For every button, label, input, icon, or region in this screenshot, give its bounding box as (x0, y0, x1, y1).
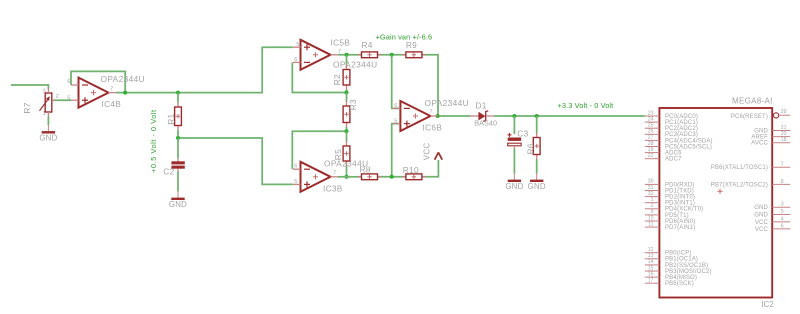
node: IC5B out junction (345, 53, 349, 57)
ground (505, 174, 523, 192)
svg-text:5: 5 (394, 118, 397, 124)
pin 11 PD7(AIN1) (645, 221, 696, 231)
node: R2/R3 junction (345, 91, 349, 95)
svg-text:PC4(ADC4/SDA): PC4(ADC4/SDA) (665, 138, 713, 144)
op-amp IC4B (71, 78, 116, 108)
svg-text:OPA2344U: OPA2344U (333, 59, 378, 69)
ground (528, 174, 546, 192)
svg-text:27: 27 (648, 135, 654, 141)
svg-text:IC3B: IC3B (323, 184, 343, 194)
svg-text:GND: GND (169, 200, 187, 209)
svg-text:+3.3 Volt - 0 Volt: +3.3 Volt - 0 Volt (558, 101, 614, 110)
svg-text:6: 6 (781, 223, 784, 229)
pin 6 VCC (755, 223, 790, 233)
potentiometer R7 (22, 89, 55, 117)
svg-text:31: 31 (648, 185, 654, 191)
svg-text:BAS40: BAS40 (474, 118, 497, 127)
pin 15 PB3(MOSI/OC2) (645, 265, 712, 275)
svg-text:C2: C2 (163, 166, 174, 176)
resistor R5 (333, 142, 350, 166)
wire: IC5B fb: pin6 left, down, to R2 bottom junction (292, 62, 346, 92)
svg-text:PD5(T1): PD5(T1) (665, 213, 689, 219)
resistor R2 (332, 65, 350, 90)
resistor R8 (358, 165, 382, 180)
svg-text:3: 3 (781, 202, 784, 208)
svg-text:7: 7 (333, 170, 336, 176)
capacitor C2 (163, 158, 184, 176)
svg-text:9: 9 (651, 209, 654, 215)
svg-text:7: 7 (338, 49, 341, 55)
resistor R3 (343, 99, 358, 127)
pin 14 PB2(SS/OC1B) (645, 259, 708, 269)
pin 1 PD3(INT1) (645, 197, 695, 207)
svg-text:15: 15 (648, 265, 654, 271)
svg-text:7: 7 (430, 109, 433, 115)
svg-text:+Gain van +/-6.6: +Gain van +/-6.6 (376, 33, 433, 42)
pin 3 GND (754, 202, 790, 212)
wire: bottom row R8/R10 (347, 176, 362, 178)
wire: R1 leads (177, 93, 179, 103)
svg-text:R8: R8 (360, 165, 371, 175)
pin 30 PD0(RXD) (645, 179, 695, 189)
wire: down to C2 (177, 138, 179, 158)
wire: IC3B fb: pin6 left, up, to R3 bottom junction (292, 131, 346, 169)
pin 2 PD4(XCK/T0) (645, 203, 704, 213)
svg-text:AVCC: AVCC (751, 141, 768, 147)
resistor R10 (402, 165, 426, 180)
pin 18 AVCC (751, 137, 790, 147)
svg-text:PD6(AIN0): PD6(AIN0) (665, 219, 695, 225)
svg-text:28: 28 (648, 141, 654, 147)
ground (39, 125, 57, 143)
svg-text:3: 3 (43, 88, 46, 94)
node: R1 bottom junction (176, 136, 180, 140)
svg-text:+0.5 Volt - 0 Volt: +0.5 Volt - 0 Volt (149, 109, 158, 173)
svg-text:OPA2344U: OPA2344U (101, 74, 146, 84)
svg-text:4: 4 (781, 216, 784, 222)
svg-text:PC1(ADC1): PC1(ADC1) (665, 120, 698, 126)
pin 10 PD6(AIN0) (645, 215, 696, 225)
svg-text:R1: R1 (166, 114, 176, 125)
node: R8/R10 junction (390, 175, 394, 179)
svg-text:5: 5 (296, 42, 299, 48)
svg-text:24: 24 (648, 116, 654, 122)
pin 5 GND (754, 209, 790, 219)
wire: R9 right, down to output row (422, 55, 438, 116)
svg-text:16: 16 (648, 271, 654, 277)
svg-text:R3: R3 (348, 99, 358, 110)
svg-text:1: 1 (43, 111, 46, 117)
svg-text:11: 11 (648, 221, 653, 227)
svg-text:19: 19 (648, 147, 654, 153)
svg-text:GND: GND (528, 182, 546, 191)
wire: IC6B pin5 down to R8/R10 junction (392, 124, 400, 177)
svg-text:20: 20 (781, 131, 787, 137)
wire: R1 bottom row to IC3B pin5 riser (178, 138, 293, 184)
svg-text:PB0(ICP): PB0(ICP) (665, 251, 692, 257)
svg-text:PB2(SS/OC1B): PB2(SS/OC1B) (665, 263, 708, 269)
VCC supply symbol (423, 143, 443, 161)
pin 8 PB7(XTAL2/TOSC2) (711, 179, 790, 189)
svg-text:PD2(INT0): PD2(INT0) (665, 195, 695, 201)
svg-text:23: 23 (648, 110, 654, 116)
node: IC4B fb junction (123, 91, 127, 95)
svg-text:IC2: IC2 (761, 300, 774, 309)
svg-text:GND: GND (39, 134, 57, 143)
svg-text:OPA2344U: OPA2344U (425, 98, 470, 108)
svg-text:14: 14 (648, 259, 654, 265)
IC2 MEGA8-AI microcontroller (659, 97, 774, 309)
svg-text:C3: C3 (517, 129, 528, 139)
wire: R3 leads (outer) (346, 93, 348, 102)
svg-text:6: 6 (394, 103, 397, 109)
pin 19 ADC6 (645, 147, 682, 157)
svg-text:GND: GND (505, 182, 523, 191)
svg-text:PD4(XCK/T0): PD4(XCK/T0) (665, 207, 703, 213)
svg-text:D1: D1 (476, 101, 487, 111)
svg-text:18: 18 (781, 137, 787, 143)
svg-text:30: 30 (648, 179, 654, 185)
svg-text:5: 5 (294, 179, 297, 185)
svg-text:8: 8 (781, 179, 784, 185)
wire: R7 wiper to IC4B pin5 (54, 99, 72, 101)
node: R1 top junction (176, 91, 180, 95)
diode D1 BAS40 (470, 101, 497, 128)
svg-text:PD7(AIN1): PD7(AIN1) (665, 225, 695, 231)
svg-text:2: 2 (56, 94, 59, 100)
wire: R4 to R9 across centre junction (378, 54, 406, 56)
node: R4/R9 junction (390, 53, 394, 57)
wire: R7 pin1 down to ground (47, 117, 49, 126)
svg-text:13: 13 (648, 253, 654, 259)
capacitor C3 (polarized) (508, 129, 529, 149)
pin 26 PC3(ADC3) (645, 129, 698, 139)
pin 25 PC2(ADC2) (645, 123, 698, 133)
wire: IC4B feedback loop (71, 71, 125, 92)
svg-text:12: 12 (648, 247, 654, 253)
svg-text:PB5(SCK): PB5(SCK) (665, 281, 694, 287)
svg-text:GND: GND (754, 212, 768, 218)
pin 29 PC6(RESET) (731, 109, 790, 120)
svg-text:29: 29 (781, 109, 787, 115)
pin 12 PB0(ICP) (645, 247, 692, 257)
svg-text:10: 10 (648, 215, 654, 221)
svg-text:26: 26 (648, 129, 654, 135)
node: fb/out junction (436, 114, 440, 118)
svg-text:5: 5 (67, 96, 70, 102)
svg-text:PB6(XTAL1/TOSC1): PB6(XTAL1/TOSC1) (711, 165, 768, 171)
svg-text:6: 6 (67, 79, 70, 85)
pin 17 PB5(SCK) (645, 278, 694, 288)
svg-text:ADC6: ADC6 (665, 151, 682, 157)
svg-text:IC6B: IC6B (423, 122, 443, 132)
svg-text:R10: R10 (403, 165, 419, 175)
svg-text:AREF: AREF (751, 135, 768, 141)
op-amp IC6B (393, 101, 438, 131)
pin 9 PD5(T1) (645, 209, 689, 219)
wire: C3 leads (513, 116, 515, 134)
resistor R6 (526, 133, 541, 159)
op-amp IC3B (293, 162, 338, 192)
pin 27 PC4(ADC4/SDA) (645, 135, 713, 145)
pin 24 PC1(ADC1) (645, 116, 698, 126)
resistor R1 (166, 103, 181, 131)
svg-text:PB4(MISO): PB4(MISO) (665, 275, 697, 281)
pin 13 PB1(OC1A) (645, 253, 698, 263)
pin 16 PB4(MISO) (645, 271, 697, 281)
ground (169, 192, 187, 210)
svg-text:17: 17 (648, 278, 654, 284)
pin 20 AREF (751, 131, 790, 141)
pin 23 PC0(ADC0) (645, 110, 698, 120)
wire: IC6B output row to D1 (438, 115, 470, 117)
svg-text:PD1(TXD): PD1(TXD) (665, 188, 694, 194)
svg-text:25: 25 (648, 123, 654, 129)
svg-text:PC5(ADC5/SCL): PC5(ADC5/SCL) (665, 144, 712, 150)
svg-text:IC5B: IC5B (331, 37, 351, 47)
svg-text:MEGA8-AI: MEGA8-AI (732, 97, 773, 106)
svg-text:21: 21 (781, 125, 787, 131)
wire: junction down to IC6B pin6 (392, 55, 400, 109)
wire: C2 bottom to ground (177, 172, 179, 192)
pin 7 PB6(XTAL1/TOSC1) (711, 162, 790, 172)
svg-text:5: 5 (781, 209, 784, 215)
wire: IC3B output to junction (338, 176, 347, 178)
svg-text:GND: GND (754, 128, 768, 134)
svg-text:32: 32 (648, 191, 654, 197)
svg-text:PC0(ADC0): PC0(ADC0) (665, 114, 698, 120)
svg-text:R2: R2 (332, 74, 342, 85)
pin 31 PD1(TXD) (645, 185, 694, 195)
svg-text:GND: GND (754, 205, 768, 211)
pin 32 PD2(INT0) (645, 191, 695, 201)
svg-text:PC2(ADC2): PC2(ADC2) (665, 126, 698, 132)
node: C3 junction (512, 114, 516, 118)
svg-text:R5: R5 (333, 149, 343, 160)
wire: IC5B output to R4 (338, 54, 362, 56)
svg-text:VCC: VCC (423, 143, 432, 161)
svg-text:22: 22 (648, 153, 654, 159)
svg-text:PD0(RXD): PD0(RXD) (665, 182, 695, 188)
pin 22 ADC7 (645, 153, 682, 163)
svg-text:PC3(ADC3): PC3(ADC3) (665, 132, 698, 138)
svg-text:PB3(MOSI/OC2): PB3(MOSI/OC2) (665, 269, 712, 275)
node: IC3B out junction (345, 175, 349, 179)
svg-text:R4: R4 (362, 40, 373, 50)
svg-text:PD3(INT1): PD3(INT1) (665, 201, 695, 207)
wire: R2 leads (outer) (346, 55, 348, 65)
pin 4 VCC (755, 216, 790, 226)
svg-text:6: 6 (294, 57, 297, 63)
resistor R4 (358, 40, 382, 58)
svg-text:R7: R7 (22, 102, 32, 113)
pin 28 PC5(ADC5/SCL) (645, 141, 712, 151)
node: R6 junction (535, 114, 539, 118)
resistor R9 (402, 40, 426, 58)
wire: R5 leads (outer) (346, 131, 348, 141)
wire: input net into R7 top (11, 85, 49, 89)
svg-text:PB1(OC1A): PB1(OC1A) (665, 257, 698, 263)
op-amp IC5B (293, 40, 338, 70)
svg-text:2: 2 (651, 203, 654, 209)
svg-text:PB7(XTAL2/TOSC2): PB7(XTAL2/TOSC2) (711, 182, 768, 188)
svg-text:ADC7: ADC7 (665, 157, 682, 163)
wire: IC4B output row to R1 and IC5B pin5 riser (116, 47, 293, 92)
node: R3/R5 junction (345, 129, 349, 133)
svg-text:R6: R6 (526, 143, 536, 154)
wire: R6 leads (536, 116, 538, 133)
pin 21 GND (754, 125, 790, 135)
svg-text:PC6(RESET): PC6(RESET) (731, 114, 768, 120)
svg-text:IC4B: IC4B (102, 99, 122, 109)
svg-text:1: 1 (651, 197, 654, 203)
wire: D1 to C3/R6 junctions then MCU pin23 (494, 115, 645, 117)
svg-text:VCC: VCC (755, 220, 769, 226)
svg-text:7: 7 (781, 162, 784, 168)
svg-text:7: 7 (110, 87, 113, 93)
wire: R10 right to VCC riser (422, 160, 439, 177)
svg-text:VCC: VCC (755, 227, 769, 233)
svg-text:6: 6 (294, 164, 297, 170)
